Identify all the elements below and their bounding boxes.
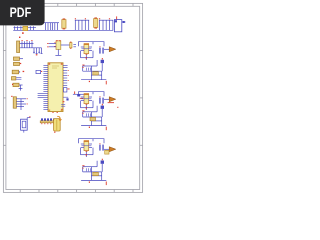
- regulator U2: [54, 40, 61, 49]
- capacitor C9 electrolytic: [23, 26, 28, 30]
- wire block1 top: [79, 42, 105, 47]
- connector J2: [11, 96, 16, 108]
- RC network 2: [81, 104, 107, 130]
- sheet frame: [3, 3, 142, 192]
- RC network 3: [81, 159, 107, 185]
- capacitor bank C17-C21 right group: [75, 20, 88, 30]
- capacitor C28: [36, 70, 42, 73]
- node block2 junction: [86, 107, 87, 108]
- transistor Q2: [81, 93, 92, 105]
- pin number marks P1: [22, 40, 38, 55]
- capacitor bank C23-C27 far right group: [100, 20, 113, 30]
- U1 right pin numbers: [68, 70, 69, 81]
- wire U2 right: [55, 45, 69, 55]
- PDF badge: [0, 0, 45, 25]
- header J3: [40, 118, 56, 124]
- wire U2 left: [49, 43, 56, 46]
- U1 right pins: [63, 66, 68, 86]
- buzzer LS1: [54, 116, 63, 133]
- resistor R6: [93, 72, 99, 75]
- microcontroller U1: [48, 63, 63, 113]
- RC network 1: [81, 58, 107, 84]
- capacitor C16 electrolytic: [62, 18, 66, 29]
- wire network3: [81, 161, 106, 181]
- pin number marks top rail: [19, 18, 110, 38]
- resistor R3: [12, 70, 24, 74]
- capacitor C30 right of U1: [64, 88, 70, 92]
- resistor R8: [93, 172, 99, 175]
- wire top decoupling rail: [13, 20, 113, 30]
- capacitor C31: [99, 46, 103, 53]
- connector P1: [17, 41, 20, 53]
- resistor R5: [12, 83, 23, 90]
- transistor Q1: [81, 43, 92, 55]
- capacitor C33: [99, 96, 103, 103]
- node cluster right of U1: [61, 97, 68, 110]
- capacitor C29 tantalum: [70, 42, 76, 49]
- capacitor bank C10-C15 mid group: [45, 23, 57, 31]
- resistor R7: [90, 117, 96, 120]
- pin mark block2 right: [108, 101, 114, 104]
- pin marks network2: [82, 110, 106, 130]
- wire block1 lower: [81, 51, 94, 60]
- power port VCC3: [104, 147, 116, 152]
- transistor Q3: [81, 140, 92, 152]
- relay K1: [21, 116, 31, 132]
- pin mark right mid: [117, 107, 118, 108]
- capacitor C36 small: [105, 150, 109, 154]
- capacitor C22 electrolytic: [94, 17, 98, 28]
- pin marks network1: [82, 65, 106, 85]
- pin marks network3: [82, 165, 106, 185]
- capacitor bank C2-C8 left group: [14, 26, 37, 30]
- wire block2 lower: [81, 101, 94, 110]
- wire block3 lower: [81, 148, 94, 157]
- pin marks J2: [27, 98, 28, 104]
- capacitor C37: [101, 159, 104, 164]
- power port VCC2: [104, 97, 116, 102]
- power port VCC1: [104, 47, 116, 52]
- resistor R4: [12, 77, 22, 80]
- svg-text:PDF: PDF: [10, 4, 32, 20]
- capacitor C35: [99, 143, 103, 150]
- wire network1: [81, 60, 106, 80]
- comb network3: [87, 168, 91, 171]
- capacitor C32: [101, 58, 104, 63]
- comb network2: [87, 113, 91, 116]
- node block3 junction: [86, 154, 87, 155]
- node block1 junction: [86, 57, 87, 58]
- driver block 3: [79, 139, 116, 157]
- resistor R2: [14, 62, 22, 65]
- wire block2 top: [79, 92, 105, 97]
- resistor R1: [14, 57, 24, 60]
- comb network1: [87, 68, 91, 71]
- driver block 2: [79, 92, 116, 110]
- connector J1: [114, 16, 125, 31]
- wire P1 pin comb: [20, 41, 43, 53]
- wire J2 pin comb: [16, 99, 26, 110]
- capacitor C34: [101, 104, 104, 109]
- U1 left pins: [38, 65, 48, 109]
- node cluster far right of U1: [73, 91, 84, 98]
- wire block3 top: [79, 139, 105, 144]
- driver block 1: [79, 42, 116, 60]
- wire network2: [81, 106, 106, 126]
